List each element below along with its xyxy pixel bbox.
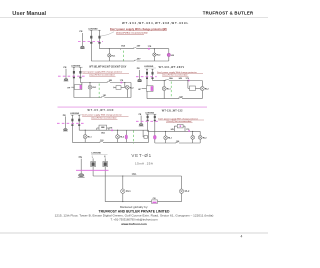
circuit 4 switch on bottom bus: [100, 141, 103, 142]
circuit 4 wire: RL1 branch: [84, 130, 86, 142]
circuit 2 terminal N (fused): [79, 68, 81, 79]
circuit 5 relay coil RL2: [198, 136, 202, 140]
circuit 2 warning underline 1: [83, 72, 130, 74]
circuit 4 top bus wire left: [79, 129, 97, 131]
circuit 1 warning underline 1: [110, 30, 167, 32]
VET-01 wire: right edge: [181, 176, 183, 202]
circuit 1 relay coil RL1: [108, 54, 111, 57]
circuit 1 wire: N drop: [99, 31, 101, 49]
svg-text:(ClassF) Not recommended: (ClassF) Not recommended: [116, 31, 148, 34]
circuit 3 magenta switch mark: [188, 80, 190, 82]
circuit 5 top bus wire: [148, 130, 201, 132]
circuit 2 relay coil RL1: [88, 85, 92, 89]
circuit 4 terminal N (fused): [78, 115, 80, 126]
footer rule: [0, 232, 268, 234]
circuit 5 ground (protective earth): [139, 124, 144, 127]
VET-01 relay coil RL2: [179, 189, 183, 193]
circuit 1 bottom bus wire right: [137, 60, 169, 62]
VET-01 fuse N: [103, 158, 108, 201]
circuit 4 magenta isolation dashes: [57, 122, 84, 124]
svg-text:1SA: 1SA: [169, 77, 173, 80]
circuit 3 switch on top bus: [166, 79, 169, 80]
circuit 2 green door-switch dashes: [98, 84, 100, 98]
circuit 4 controller pin left: [97, 127, 99, 129]
circuit 1 terminal L (fused): [90, 31, 92, 44]
svg-text:1S1: 1S1: [179, 96, 182, 98]
circuit 3 wire: defrost to edge: [195, 87, 202, 89]
svg-text:WT-85,WT-96D: WT-85,WT-96D: [88, 109, 115, 112]
circuit 2 heater box: [74, 85, 82, 90]
circuit 1 junction dot RL1: [109, 48, 110, 49]
svg-text:4: 4: [241, 234, 243, 238]
svg-text:PE: PE: [79, 155, 83, 159]
circuit 1 ground (protective earth): [80, 46, 85, 48]
circuit 2 wire: heater feed: [71, 86, 74, 88]
circuit 3 relay coil RL1: [162, 87, 166, 91]
circuit 5 lamp on N (magenta): [153, 135, 156, 139]
svg-text:WT-901,WT-960V: WT-901,WT-960V: [159, 66, 185, 69]
circuit 4 magenta switch mark: [111, 130, 113, 132]
circuit 1 magenta isolation dashes: [78, 40, 103, 42]
circuit 1 terminal N (fused): [98, 31, 100, 44]
circuit 3 green door-switch dashes: [170, 82, 172, 99]
circuit 2 heater magenta element: [80, 85, 82, 89]
svg-text:1SA: 1SA: [121, 44, 125, 47]
circuit 2 junction dot RL1: [89, 82, 90, 83]
svg-text:User Manual: User Manual: [12, 11, 46, 17]
circuit 4 warning underline 1: [82, 115, 128, 117]
VET-01 connector CN box: [152, 200, 158, 203]
VET-01 connector CN magenta element: [152, 202, 156, 204]
circuit 4 bottom bus wire left: [72, 141, 100, 143]
circuit 2 warning underline 2: [89, 75, 115, 77]
circuit 3 terminal L (fused): [146, 69, 148, 79]
circuit 4 relay coil RL2: [116, 135, 120, 139]
VET-01 wire: PE drop: [80, 159, 82, 174]
circuit 2 ground (protective earth): [64, 79, 69, 82]
svg-text:(ClassF) Not recommended: (ClassF) Not recommended: [89, 74, 114, 77]
circuit 1 switch on bottom bus: [134, 60, 136, 61]
VET-01 junction dot RL1 top: [122, 175, 123, 176]
circuit 2 terminal L (fused): [73, 68, 75, 79]
circuit 5 bridge magenta dot: [180, 125, 182, 127]
circuit 5 relay coil RL1: [164, 136, 168, 140]
circuit 5 wire: N drop: [154, 115, 156, 143]
circuit 4 ground (protective earth): [63, 129, 68, 132]
circuit 4 bottom bus wire right: [103, 141, 149, 143]
VET-01 magenta isolation line: [76, 169, 109, 171]
circuit 1 wire: RL2 branch: [153, 49, 155, 61]
circuit 5 wire: L drop: [147, 115, 149, 132]
svg-text:WT-181,WT-901,WT-181V,WT-101V: WT-181,WT-901,WT-181V,WT-101V: [89, 67, 126, 69]
svg-text:WT-904,WT-964,WT-908,WT-909L: WT-904,WT-964,WT-908,WT-909L: [122, 21, 189, 25]
circuit 1 wire: PE drop: [81, 33, 83, 46]
circuit 3 top bus wire right: [169, 80, 203, 82]
svg-text:RL2: RL2: [185, 189, 190, 193]
svg-text:15mA .25A: 15mA .25A: [135, 161, 153, 165]
circuit 2 wire: RL1 branch: [89, 83, 91, 98]
circuit 4 warning underline 2: [91, 118, 117, 120]
circuit 5 wire: PE drop: [140, 116, 142, 124]
circuit 3 heater box: [147, 86, 154, 92]
circuit 1 magenta switch mark: [148, 48, 150, 50]
circuit 2 switch on top bus: [107, 81, 110, 82]
svg-text:VET-Ø1: VET-Ø1: [131, 153, 152, 158]
circuit 2 bottom bus wire left: [74, 97, 102, 99]
VET-01 bottom bus wire: [105, 201, 181, 203]
circuit 5 warning underline 1: [158, 119, 204, 121]
svg-text:1S1: 1S1: [100, 140, 103, 142]
circuit 2 wire: defrost stub tick: [113, 87, 115, 89]
circuit 3 junction dot RL1: [164, 80, 165, 81]
circuit 4 wire: RL2 branch: [117, 130, 119, 142]
circuit 3 wire: RL1 branch: [163, 81, 165, 99]
VET-01 top bus wire: [93, 175, 181, 177]
circuit 3 switch on bottom bus: [179, 97, 182, 98]
svg-text:CN1: CN1: [132, 173, 137, 176]
circuit 5 warning underline 2: [166, 122, 192, 124]
circuit 5 bridge box: [177, 124, 183, 128]
circuit 4 controller pin right: [107, 127, 109, 129]
circuit 4 terminal L (fused): [71, 115, 73, 126]
circuit 4 top bus wire right: [97, 129, 149, 131]
circuit 2 wire: heater to bus riser: [81, 83, 83, 85]
circuit 2 relay coil RL2: [125, 86, 129, 90]
circuit 1 relay coil RL2: [153, 53, 156, 56]
circuit 4 defrost box: [144, 136, 148, 139]
circuit 5 wire: RL1 branch: [165, 131, 167, 143]
circuit 5 LIVE/GND underline: [146, 113, 157, 115]
circuit 1 leader line to warning: [100, 32, 114, 37]
svg-text:LM: LM: [171, 55, 174, 57]
circuit 3 relay coil RL2: [200, 87, 204, 91]
circuit 5 switch on bottom bus: [176, 142, 179, 143]
circuit 5 junction dot RL1: [165, 131, 166, 132]
circuit 3 wire: right edge: [201, 81, 203, 99]
circuit 3 wire: N drop: [152, 69, 154, 80]
svg-text:T. +91-7303160790 info@truf: T. +91-7303160790 info@trufrost.com: [110, 218, 158, 222]
circuit 4 green door-switch dashes: [133, 131, 135, 144]
circuit 3 LIVE/GND underline: [144, 67, 156, 69]
circuit 3 wire: defrost riser: [187, 81, 189, 89]
circuit 5 terminal N (fused): [154, 115, 156, 122]
circuit 5 bottom bus wire right: [179, 142, 200, 144]
circuit 2 wire: N drop: [79, 68, 81, 83]
circuit 5 bottom bus wire left: [155, 142, 176, 144]
circuit 2 wire: defrost to RL2: [124, 86, 127, 88]
circuit 2 wire: RL2 drop: [126, 89, 128, 97]
svg-text:1S1: 1S1: [176, 141, 179, 143]
circuit 5 junction dot fan: [192, 131, 193, 132]
circuit 2 wire: PE drop: [65, 69, 67, 79]
VET-01 fuse L: [91, 158, 96, 176]
circuit 3 terminal N (fused): [152, 69, 154, 79]
circuit 3 warning underline 2: [162, 76, 188, 78]
VET-01 wire: RL1 branch: [122, 176, 124, 202]
circuit 1 green door-switch dashes: [122, 51, 124, 63]
magenta section separator: [58, 106, 208, 108]
circuit 1 top bus wire right: [136, 48, 169, 50]
circuit 2 magenta isolation dashes: [58, 75, 85, 77]
circuit 5 magenta switch mark: [188, 130, 190, 132]
svg-text:WT-13L,WT-132: WT-13L,WT-132: [162, 110, 183, 113]
svg-text:1SA: 1SA: [101, 131, 105, 134]
circuit 5 fan coil: [191, 136, 195, 140]
circuit 2 top bus wire right: [110, 82, 131, 84]
circuit 2 defrost box: [116, 86, 121, 90]
circuit 4 controller inner mark: [101, 127, 104, 128]
circuit 2 magenta switch mark: [121, 82, 123, 84]
circuit 2 junction dot defrost: [124, 82, 125, 83]
VET-01 junction dot RL1 bottom: [122, 201, 123, 202]
circuit 1 junction dot RL2: [154, 48, 155, 49]
circuit 3 magenta isolation dashes: [136, 76, 157, 78]
circuit 3 top bus wire left: [153, 80, 166, 82]
circuit 1 warning underline 2: [116, 33, 144, 35]
circuit 5 bridge riser left: [173, 126, 175, 131]
circuit 1 wire: RL1 branch: [108, 49, 110, 61]
circuit 2 top bus wire left: [80, 82, 107, 84]
circuit 2 switch on bottom bus: [102, 96, 105, 97]
header rule: [0, 16, 268, 18]
svg-text:(ClassF) Not recommended: (ClassF) Not recommended: [166, 120, 191, 123]
circuit 1 wire: L drop: [90, 31, 92, 62]
circuit 3 wire: PE drop: [138, 70, 140, 79]
circuit 1 lamp LM (magenta): [167, 53, 170, 56]
circuit 4 wire: PE drop: [64, 116, 66, 128]
svg-text:1S1: 1S1: [103, 95, 106, 97]
circuit 4 wire: lamp branch: [125, 130, 127, 142]
circuit 4 junction dot RL1: [85, 130, 86, 131]
circuit 4 wire: N drop: [78, 115, 80, 130]
circuit 2 bottom bus wire right: [104, 97, 131, 99]
svg-text:N: N: [104, 156, 106, 159]
circuit 5 terminal L (fused): [147, 115, 149, 122]
circuit 2 wire: right edge: [130, 83, 132, 98]
circuit 3 wire: heater feed: [142, 88, 147, 90]
svg-text:TRUFROST & BUTLER: TRUFROST & BUTLER: [203, 11, 254, 16]
VET-01 relay coil RL1: [121, 189, 125, 193]
circuit 1 switch on top bus: [133, 47, 136, 48]
VET-01 ground (protective earth): [78, 174, 85, 178]
circuit 4 controller box: [99, 125, 107, 130]
circuit 3 bottom bus wire left: [147, 98, 179, 100]
circuit 4 LIVE/GND underline: [70, 114, 82, 116]
circuit 3 heater magenta element: [151, 86, 154, 91]
svg-text:Don't power supply With change: Don't power supply With change protector…: [110, 28, 167, 31]
circuit 4 relay coil RL1: [83, 135, 87, 139]
circuit 3 bottom bus wire right: [182, 98, 202, 100]
circuit 3 warning underline 1: [157, 73, 203, 75]
svg-text:RL1: RL1: [126, 189, 131, 193]
circuit 4 wire: stub to edge: [148, 136, 149, 138]
circuit 4 wire: defrost stub: [142, 130, 144, 137]
circuit 3 defrost box: [190, 86, 196, 91]
circuit 1 bottom bus wire left: [91, 60, 134, 62]
circuit 3 ground (protective earth): [137, 79, 142, 81]
circuit 1 tick below 1SA: [119, 49, 121, 50]
circuit 1 wire: LM branch (right edge): [168, 49, 170, 61]
circuit 3 wire: L drop: [146, 69, 148, 98]
circuit 5 wire: right edge: [199, 131, 201, 143]
svg-text:(ClassF) Not recommended: (ClassF) Not recommended: [162, 74, 187, 77]
svg-text:(ClassF) Not recommended: (ClassF) Not recommended: [91, 117, 116, 120]
circuit 4 wire: right edge: [148, 130, 150, 142]
circuit 2 wire: L drop: [73, 68, 75, 98]
circuit 4 junction dot RL2: [117, 130, 118, 131]
circuit 5 magenta isolation dashes: [136, 120, 159, 122]
circuit 1 top bus wire left: [100, 48, 134, 50]
circuit 4 lamp (magenta): [125, 135, 127, 139]
circuit 2 wire: defrost riser: [124, 83, 126, 88]
svg-text:www.trufrost.com: www.trufrost.com: [120, 222, 147, 226]
circuit 5 wire: fan branch: [192, 131, 194, 143]
circuit 1 LIVE/GND underline: [89, 29, 101, 31]
VET-01 LIVE/GND underline: [91, 153, 107, 155]
circuit 2 LIVE/GND underline: [71, 66, 83, 68]
circuit 4 wire: L drop: [71, 115, 73, 142]
circuit 5 bridge riser right: [183, 125, 185, 127]
circuit 3 junction dot defrost: [187, 80, 188, 81]
